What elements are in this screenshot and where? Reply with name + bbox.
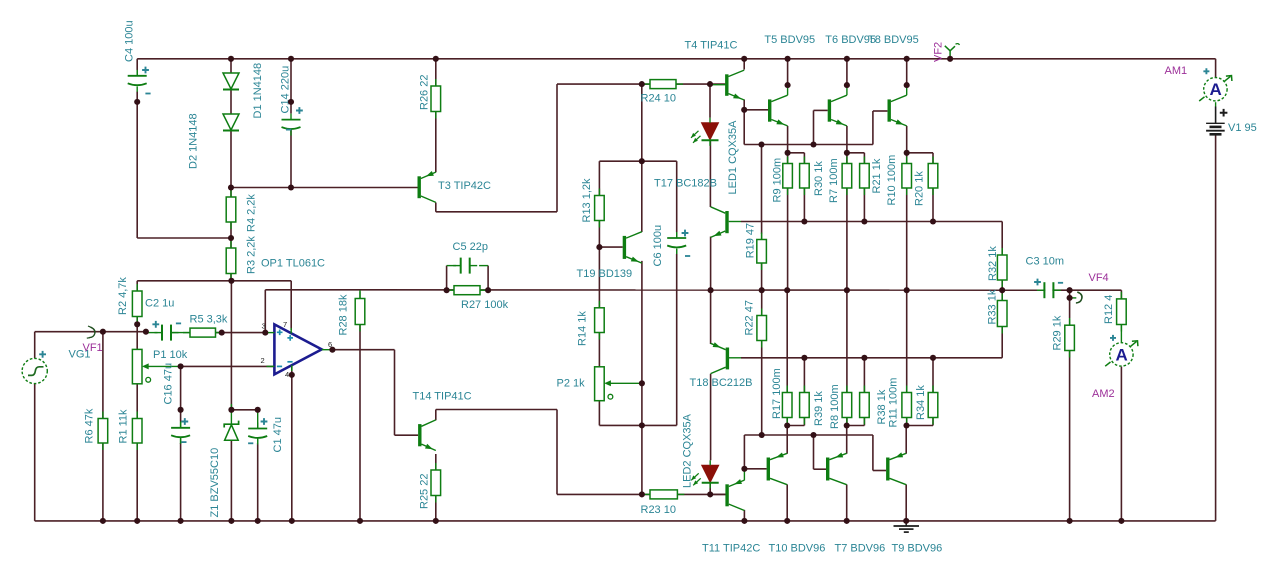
resistor R2	[132, 284, 142, 324]
wire T3 collector down	[435, 203, 437, 212]
wire C6 column bottom	[676, 249, 678, 255]
svg-text:T9 BDV96: T9 BDV96	[892, 543, 943, 555]
wire R9 column	[787, 153, 789, 164]
svg-text:A: A	[1115, 345, 1127, 364]
wire R12 column	[1120, 290, 1122, 299]
resistor R23	[643, 490, 684, 499]
wire node row 187 to T3 base	[231, 187, 418, 189]
label C16 plus	[181, 418, 188, 425]
wire T4 emitter to T5 base	[743, 100, 745, 110]
wire T5 emitter	[787, 126, 789, 153]
node bottom base chain	[759, 432, 765, 438]
resistor R5	[183, 328, 223, 337]
node P1 wiper	[178, 363, 184, 369]
wire feedback drop to pin3	[264, 290, 266, 333]
wire R7 column	[846, 153, 848, 164]
wire R3 bottom row to R2	[137, 280, 231, 282]
resistor R25	[431, 463, 441, 503]
wire bottom rail	[35, 520, 1216, 522]
svg-text:R26 22: R26 22	[419, 75, 431, 110]
wire R39 column	[803, 358, 805, 393]
svg-text:T4 TIP41C: T4 TIP41C	[685, 40, 738, 52]
transistor T19	[623, 232, 642, 263]
label C3 minus	[1058, 282, 1063, 284]
wire P2 bottom	[598, 401, 600, 426]
wire T9 base riser	[872, 435, 874, 471]
wire Z1 column top	[230, 281, 232, 410]
wire VF4 tap	[1069, 290, 1071, 298]
svg-text:LED2 CQX35A: LED2 CQX35A	[682, 413, 694, 488]
wire T3 collector run right	[436, 211, 557, 213]
wire LED1 cathode to T17 collector	[709, 141, 711, 208]
wire R29 column	[1069, 298, 1071, 318]
svg-text:R28 18k: R28 18k	[338, 294, 350, 335]
node VF4 tap	[1067, 295, 1073, 301]
node op-amp pin4	[289, 372, 295, 378]
node C4 bottom	[134, 99, 140, 105]
svg-text:A: A	[1209, 80, 1221, 99]
wire R23 to LED2/T11 base	[677, 493, 725, 495]
svg-text:V1 95: V1 95	[1228, 122, 1257, 134]
wire R8 column	[846, 290, 848, 392]
wire C1 column	[257, 410, 259, 429]
wire T4 collector	[743, 59, 745, 70]
wire base chain row top	[744, 144, 873, 146]
capacitor C16	[171, 422, 190, 444]
wire op-amp pin4 column to rail	[291, 365, 293, 521]
resistor R21	[860, 157, 870, 196]
resistor R30	[800, 157, 810, 196]
label C2 plus	[152, 321, 159, 328]
voltage pin VF4	[1076, 292, 1082, 303]
node R24 row junctions	[639, 81, 645, 87]
op-amp polarity marks	[277, 330, 283, 336]
wire C16 column	[180, 366, 182, 421]
wire top bias row (1k resistors)	[762, 221, 1003, 223]
wire R8-R38 bottom row	[847, 425, 865, 427]
wire op-amp pin2 line	[181, 365, 275, 367]
wire output drop to T14 base	[394, 350, 396, 436]
wire R13 column	[598, 161, 600, 195]
node top bias row	[801, 218, 807, 224]
resistor R39	[800, 386, 810, 425]
wire T14 collector drop	[556, 410, 558, 495]
wire R7-R21 top row	[847, 152, 865, 154]
wire D1 to node row 187	[230, 132, 232, 188]
svg-text:R34 1k: R34 1k	[915, 385, 927, 420]
label C1 plus	[261, 418, 268, 425]
node op-amp pin3	[262, 330, 268, 336]
node C14 top	[288, 99, 294, 105]
resistor R4	[226, 190, 236, 229]
transistor T3	[418, 171, 436, 202]
ammeter AM1	[1199, 76, 1232, 101]
label C16 minus	[181, 441, 186, 443]
capacitor C1	[248, 423, 267, 445]
resistor R20	[928, 157, 938, 196]
wire T6 emitter	[846, 126, 848, 153]
wire T14 collector run	[436, 409, 557, 411]
wire T9 collector	[905, 485, 907, 521]
transistor T14	[418, 420, 436, 451]
wire P1 bottom to R1	[136, 384, 138, 419]
svg-text:R21 1k: R21 1k	[871, 158, 883, 193]
transistor T7	[826, 453, 847, 485]
wire C14 bottom	[290, 129, 292, 188]
node R23 row	[639, 491, 645, 497]
resistor R33	[997, 294, 1007, 334]
wire R21 column	[863, 153, 865, 164]
wire VG1 bottom to rail	[34, 383, 36, 521]
wire R10-R20 top row	[907, 152, 933, 154]
capacitor C2	[155, 325, 179, 341]
wire R22 column	[761, 290, 763, 315]
wire T3 collector riser	[556, 84, 558, 212]
svg-text:R33 1k: R33 1k	[987, 289, 999, 324]
transistor T11	[725, 479, 744, 510]
resistor R19	[757, 233, 767, 271]
label C6 plus	[682, 230, 689, 237]
wire LED1 anode column	[709, 84, 711, 118]
node T4 emitter	[741, 107, 747, 113]
svg-text:R27 100k: R27 100k	[461, 299, 509, 311]
LED2 CQX35A	[691, 460, 719, 488]
resistor R24	[643, 80, 683, 89]
node P2 bottom row	[639, 422, 645, 428]
resistor R7	[842, 157, 852, 196]
node diode row	[228, 184, 234, 190]
svg-text:R5 3,3k: R5 3,3k	[190, 314, 228, 326]
wire R24 to LED1/T4 base	[676, 83, 725, 85]
wire R34 column	[932, 358, 934, 393]
wire R9-R30 top row	[788, 152, 805, 154]
resistor R29	[1065, 318, 1075, 357]
voltage pin VF1	[89, 327, 95, 337]
wire T7 base riser	[813, 435, 815, 469]
wire R2 bottom to P1	[136, 317, 138, 350]
resistor R22	[757, 309, 767, 348]
LED1 CQX35A	[691, 118, 719, 146]
signal source VG1	[22, 358, 47, 383]
label C1 minus	[248, 442, 253, 444]
resistor R26	[431, 79, 441, 119]
svg-text:T19 BD139: T19 BD139	[577, 268, 633, 280]
wire T11 collector	[743, 510, 745, 521]
wire between diodes D2-D1	[230, 90, 232, 115]
resistor R6	[98, 412, 108, 451]
svg-text:R19 47: R19 47	[744, 223, 756, 258]
svg-text:T5 BDV95: T5 BDV95	[764, 34, 815, 46]
svg-text:T11 TIP42C: T11 TIP42C	[702, 543, 760, 555]
svg-text:D1 1N4148: D1 1N4148	[252, 63, 264, 119]
wire op-amp output	[332, 349, 394, 351]
wire C16 bottom to rail	[180, 438, 182, 445]
wire R14 column	[598, 247, 600, 308]
svg-text:VF1: VF1	[83, 342, 103, 354]
wire T19 emitter column	[641, 261, 643, 426]
label C4 minus	[145, 93, 150, 95]
svg-text:T14 TIP41C: T14 TIP41C	[413, 391, 472, 403]
wire T5 collector	[787, 59, 789, 85]
transistor T10	[767, 453, 788, 485]
svg-text:VF4: VF4	[1089, 272, 1109, 284]
svg-text:C14 220u: C14 220u	[279, 66, 291, 114]
resistor R38	[860, 386, 870, 425]
wire C5 right riser	[487, 266, 489, 291]
node C16 top	[178, 407, 184, 413]
label C2 minus	[176, 322, 181, 324]
node VF1 junction	[100, 329, 106, 335]
node T11 emitter	[741, 466, 747, 472]
svg-text:R22 47: R22 47	[744, 300, 756, 335]
svg-text:R13 1,2k: R13 1,2k	[581, 178, 593, 223]
svg-text:C3 10m: C3 10m	[1026, 256, 1065, 268]
wire R30 column	[803, 153, 805, 164]
wire AM2 to rail	[1120, 367, 1122, 521]
wire R13 top row	[599, 160, 676, 162]
node emitter resistor tops	[785, 150, 791, 156]
svg-text:R20 1k: R20 1k	[914, 171, 926, 206]
wire T19 base	[599, 246, 622, 248]
wire T8 emitter	[906, 126, 908, 153]
svg-text:2: 2	[261, 356, 265, 365]
resistor R8	[842, 386, 852, 425]
svg-text:R12 4: R12 4	[1103, 295, 1115, 324]
svg-text:R32 1k: R32 1k	[987, 246, 999, 281]
wire R32 top lead	[1001, 222, 1003, 256]
wire AM1 to V1	[1215, 102, 1217, 106]
wire AM1 top lead	[1215, 59, 1217, 78]
svg-text:T3 TIP42C: T3 TIP42C	[438, 180, 491, 192]
svg-text:7: 7	[283, 320, 287, 329]
svg-text:T10 BDV96: T10 BDV96	[769, 543, 826, 555]
svg-text:R14 1k: R14 1k	[577, 311, 589, 346]
voltage pin VF2	[945, 44, 960, 59]
node op-amp output	[329, 347, 335, 353]
wire right border column (V1 to bottom rail)	[1215, 134, 1217, 521]
resistor R3	[226, 241, 236, 281]
svg-text:R4 2,2k: R4 2,2k	[246, 194, 258, 232]
wire R26 to T3 emitter	[435, 112, 437, 173]
svg-text:4: 4	[285, 370, 289, 379]
svg-text:P2 1k: P2 1k	[557, 378, 586, 390]
svg-text:P1 10k: P1 10k	[153, 349, 188, 361]
wire R3 bottom to op-amp V+ drop	[231, 280, 291, 282]
zener diode Z1	[224, 404, 238, 440]
label C6 minus	[685, 255, 690, 257]
resistor R10	[902, 157, 912, 196]
node C5 risers	[444, 287, 450, 293]
label AM1 plus	[1203, 68, 1209, 74]
transistor T8	[888, 95, 907, 126]
node R13 row	[639, 158, 645, 164]
svg-text:R1 11k: R1 11k	[118, 409, 130, 444]
wire R25 to rail	[435, 496, 437, 521]
svg-text:C16 47u: C16 47u	[163, 363, 175, 405]
svg-text:R17 100m: R17 100m	[771, 368, 783, 419]
svg-text:AM1: AM1	[1165, 65, 1188, 77]
transistor T18	[711, 342, 730, 373]
wire R4-R3 column	[230, 188, 232, 198]
svg-text:C5 22p: C5 22p	[453, 241, 488, 253]
wire C14 top	[290, 59, 292, 114]
label VG1 plus	[39, 351, 46, 358]
wire R32 bottom lead	[1001, 280, 1003, 290]
svg-text:LED1 CQX35A: LED1 CQX35A	[727, 120, 739, 195]
diode D1 1N4148	[223, 114, 239, 131]
wire P2 junction down to R23 row	[641, 425, 643, 494]
node bottom bias row	[801, 355, 807, 361]
node R3 bottom	[228, 278, 234, 284]
node P2 wiper	[639, 380, 645, 386]
svg-text:VF2: VF2	[933, 42, 945, 62]
svg-text:Z1 BZV55C10: Z1 BZV55C10	[209, 448, 221, 518]
wire R26 column	[435, 59, 437, 86]
wire R33 bottom lead	[1001, 327, 1003, 358]
wire C2 to R5	[172, 332, 191, 334]
svg-text:T18 BC212B: T18 BC212B	[690, 377, 753, 389]
svg-text:AM2: AM2	[1092, 388, 1115, 400]
diode D2 1N4148	[223, 73, 239, 90]
wire R10 column	[906, 153, 908, 164]
capacitor C3	[1037, 282, 1061, 298]
wire T9 emitter riser	[905, 426, 907, 454]
svg-text:R11 100m: R11 100m	[888, 378, 900, 428]
wire T8 base riser	[872, 111, 874, 145]
wire R2 column	[136, 281, 138, 291]
svg-text:R3 2,2k: R3 2,2k	[246, 236, 258, 274]
label AM2 plus	[1110, 335, 1116, 341]
svg-text:OP1 TL061C: OP1 TL061C	[261, 258, 325, 270]
svg-text:R39 1k: R39 1k	[813, 391, 825, 426]
wire T6 collector	[846, 59, 848, 85]
wire T10 emitter riser	[786, 426, 788, 454]
wire top supply rail	[137, 58, 1215, 60]
wire T18 collector to LED2	[710, 374, 712, 461]
wire C5 left riser	[446, 266, 448, 291]
wire T7 emitter riser	[846, 426, 848, 454]
wire T8 collector	[906, 59, 908, 85]
svg-text:R8 100m: R8 100m	[829, 384, 841, 429]
wire R19 column	[761, 263, 763, 290]
resistor R28	[355, 292, 365, 332]
wire R11-R34 bottom row	[907, 425, 933, 427]
svg-text:C4 100u: C4 100u	[124, 20, 136, 62]
potentiometer P1	[132, 349, 180, 383]
node T19 base	[596, 244, 602, 250]
svg-text:R29 1k: R29 1k	[1051, 315, 1063, 350]
capacitor C6	[667, 232, 686, 254]
wire diode column top	[230, 59, 232, 73]
ground	[894, 521, 920, 532]
svg-text:R38 1k: R38 1k	[876, 389, 888, 424]
battery V1 95	[1206, 123, 1225, 134]
wire T18 base / bottom bias row	[729, 357, 741, 359]
node R4 bottom	[228, 235, 234, 241]
svg-text:R30 1k: R30 1k	[813, 161, 825, 196]
wire R23 row left	[557, 493, 650, 495]
resistor R32	[997, 248, 1007, 287]
wire bias row to R24	[557, 83, 650, 85]
resistor R11	[902, 386, 912, 425]
svg-text:R10 100m: R10 100m	[886, 155, 898, 206]
resistor R17	[782, 386, 792, 425]
wire T6 base riser	[813, 110, 815, 144]
wire T4 base lead	[710, 84, 725, 86]
wire T7 collector	[846, 485, 848, 521]
capacitor C5	[453, 258, 477, 274]
wire T11 base	[710, 493, 726, 495]
wire T17 emitter to output	[710, 237, 712, 291]
transistor T17	[711, 207, 729, 238]
svg-text:T8 BDV95: T8 BDV95	[868, 34, 919, 46]
op-amp OP1 TL061C	[265, 324, 332, 374]
transistor T9	[886, 452, 906, 484]
wire base chain riser (T5 group)	[761, 145, 763, 222]
svg-text:R25 22: R25 22	[419, 474, 431, 509]
svg-text:R7 100m: R7 100m	[828, 158, 840, 203]
svg-text:R9 100m: R9 100m	[772, 158, 784, 203]
capacitor C4	[128, 70, 147, 92]
resistor R14	[595, 301, 605, 340]
svg-text:C2 1u: C2 1u	[145, 298, 174, 310]
resistor R13	[595, 189, 605, 228]
wire R33 top lead	[1001, 290, 1003, 300]
node bottom rail junctions	[100, 518, 106, 524]
node R5 output side	[219, 330, 225, 336]
resistor R34	[928, 386, 938, 425]
label C4 plus	[142, 67, 149, 74]
wire R5 to op-amp pin3	[216, 332, 266, 334]
wire main output line (feedback to output stage)	[265, 289, 1045, 291]
node top rail junctions	[228, 56, 234, 62]
wire R6 column	[102, 332, 104, 419]
wire R1 bottom to rail	[136, 443, 138, 521]
transistor T5	[768, 95, 788, 126]
svg-text:C6 100u: C6 100u	[652, 225, 664, 267]
resistor R1	[132, 412, 142, 451]
svg-text:C1 47u: C1 47u	[272, 417, 284, 452]
ammeter AM2	[1105, 341, 1138, 366]
node VF2 pin	[947, 56, 953, 62]
wire LED2 cathode to base node	[709, 483, 711, 494]
transistor T6	[828, 95, 847, 126]
wire T11 emitter riser	[743, 435, 745, 469]
label C14 plus	[296, 107, 303, 114]
wire T18 emitter to output	[710, 290, 712, 344]
wire T14 emitter to R25	[435, 454, 437, 470]
node base chain top	[758, 141, 764, 147]
node emitter resistor bottoms	[784, 422, 790, 428]
capacitor C14	[282, 114, 301, 136]
label V1 plus	[1220, 109, 1228, 117]
wire T17 base row	[729, 221, 741, 223]
resistor R12	[1117, 292, 1127, 332]
svg-text:T17 BC182B: T17 BC182B	[654, 178, 717, 190]
wire R17 column	[786, 290, 788, 392]
wire T10 collector	[786, 485, 788, 521]
wire R38 column	[863, 358, 865, 393]
transistor T4	[725, 70, 744, 100]
wire R28 column	[359, 290, 361, 298]
svg-text:R2 4,7k: R2 4,7k	[117, 277, 129, 315]
svg-text:D2 1N4148: D2 1N4148	[188, 113, 200, 169]
svg-text:R6 47k: R6 47k	[84, 408, 96, 443]
wire R12 to AM2	[1120, 325, 1122, 343]
wire VG1 top to VF1 node	[34, 332, 36, 358]
wire T19 collector riser	[641, 84, 643, 161]
svg-text:3: 3	[262, 322, 266, 331]
